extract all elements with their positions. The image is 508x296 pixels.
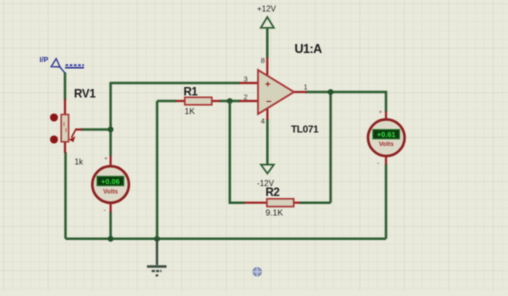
label R2 value 9.1K bbox=[266, 208, 284, 218]
wire: left voltmeter bottom to ground rail bbox=[109, 211, 112, 239]
terminal I/P input marker bbox=[40, 55, 85, 73]
pin: R1 left lead (red) bbox=[176, 100, 185, 102]
voltmeter VM1 (left) bbox=[92, 156, 129, 215]
pin: RV1 top lead (red) bbox=[64, 99, 66, 115]
op-amp U1 triangle bbox=[258, 70, 294, 114]
wire: right voltmeter bottom down and left along ground rail bbox=[385, 164, 388, 239]
svg-text:Volts: Volts bbox=[379, 141, 394, 148]
voltmeter VM2 (right) bbox=[368, 109, 405, 168]
pin: R2 left lead (red) bbox=[245, 202, 268, 204]
origin marker bbox=[252, 267, 262, 277]
pin number 3 bbox=[244, 75, 248, 84]
svg-text:U1:A: U1:A bbox=[295, 42, 323, 56]
pin: right voltmeter - lead (red) bbox=[385, 156, 387, 165]
svg-text:4: 4 bbox=[261, 117, 265, 126]
wire: U1 output rail to right voltmeter bbox=[306, 92, 387, 112]
node: junction of wiper wire and riser bbox=[108, 126, 114, 132]
node: junction of output rail and feedback riser bbox=[328, 89, 334, 95]
label R1 bbox=[184, 87, 199, 99]
potentiometer RV1 body bbox=[61, 115, 68, 142]
svg-text:+0.61: +0.61 bbox=[377, 130, 396, 139]
svg-text:3: 3 bbox=[244, 75, 248, 84]
svg-text:1k: 1k bbox=[75, 158, 84, 167]
pin: R2 right lead (red) bbox=[294, 202, 301, 204]
ground bbox=[147, 239, 167, 276]
wire: R1 left lead to drop at x=157 bbox=[157, 100, 176, 103]
wire: feedback riser from pin-2 node down to R2 left bbox=[230, 101, 245, 203]
wire: R1 right lead to U1 pin 2 bbox=[220, 100, 241, 103]
wire: output riser from R2 up to output rail bbox=[329, 92, 332, 203]
pin: U1 pin 8 lead (red) bbox=[266, 58, 268, 77]
node: junction of R1 output and feedback riser bbox=[227, 98, 233, 104]
svg-text:+12V: +12V bbox=[257, 5, 277, 14]
pin: RV1 bottom lead (red) bbox=[64, 142, 66, 154]
svg-text:+0.06: +0.06 bbox=[101, 177, 120, 186]
wire: I/P terminal down to RV1 top bbox=[64, 73, 67, 101]
power -12V arrow symbol bbox=[257, 165, 275, 188]
wire: RV1 wiper to riser junction bbox=[81, 128, 111, 131]
svg-text:1K: 1K bbox=[185, 106, 196, 116]
wire: vertical riser at x=110.6 from top rail down to left voltmeter bbox=[109, 82, 112, 157]
svg-text:I/P: I/P bbox=[40, 55, 49, 64]
pin number 8 bbox=[261, 56, 265, 65]
pin number 1 bbox=[304, 83, 308, 92]
wire: +12V arrow stem to U1 pin 8 bbox=[266, 28, 269, 59]
RV1 actuator button dot upper bbox=[50, 114, 58, 122]
pin: left voltmeter - lead (red) bbox=[109, 203, 111, 213]
label TL071 bbox=[291, 125, 319, 136]
label RV1 bbox=[74, 89, 96, 101]
pin: left voltmeter + lead (red) bbox=[109, 156, 111, 167]
label R2 bbox=[266, 187, 280, 199]
wire: vertical drop from R1 left to ground rail bbox=[156, 101, 159, 239]
svg-text:+: + bbox=[379, 109, 383, 116]
wire: U1 pin 4 to -12V arrow bbox=[266, 119, 269, 165]
label U1:A bbox=[295, 42, 323, 56]
pin: U1 pin 3 lead (red) bbox=[240, 82, 259, 84]
wire: RV1 bottom terminal down-left corner to ground rail bbox=[64, 152, 67, 239]
svg-text:2: 2 bbox=[244, 93, 248, 102]
pin: U1 output pin 1 lead (red) bbox=[294, 91, 307, 93]
svg-text:9.1K: 9.1K bbox=[266, 208, 284, 218]
svg-text:RV1: RV1 bbox=[74, 89, 96, 101]
resistor R2 body bbox=[267, 199, 294, 207]
pin number 4 bbox=[261, 117, 265, 126]
pin: RV1 wiper lead with arrowhead bbox=[69, 130, 82, 143]
power +12V arrow symbol bbox=[257, 5, 277, 28]
label R1 value 1K bbox=[185, 106, 196, 116]
wire: bottom ground rail bbox=[66, 238, 387, 241]
svg-text:8: 8 bbox=[261, 56, 265, 65]
svg-text:Volts: Volts bbox=[103, 188, 118, 195]
label RV1 value 1k bbox=[75, 158, 84, 167]
pin number 2 bbox=[244, 93, 248, 102]
svg-text:TL071: TL071 bbox=[291, 125, 319, 136]
pin: right voltmeter + lead (red) bbox=[385, 112, 387, 121]
node: junction of left voltmeter drop and ground rail bbox=[108, 236, 114, 242]
wire: R2 right lead to output riser bbox=[300, 201, 331, 204]
pin: U1 pin 2 lead (red) bbox=[240, 100, 259, 102]
pin: U1 pin 4 lead (red) bbox=[266, 108, 268, 120]
wire: top rail from RV1 riser to U1 pin 3 bbox=[111, 82, 240, 85]
svg-text:R2: R2 bbox=[266, 187, 280, 199]
svg-text:−: − bbox=[266, 97, 272, 108]
svg-text:+: + bbox=[265, 79, 271, 90]
svg-text:R1: R1 bbox=[184, 87, 199, 99]
resistor R1 body bbox=[185, 97, 212, 105]
node: junction of R1 drop, ground symbol and ground rail bbox=[154, 236, 160, 242]
RV1 actuator button dot lower bbox=[50, 136, 58, 144]
svg-text:1: 1 bbox=[304, 83, 308, 92]
svg-text:+: + bbox=[104, 156, 108, 163]
pin: R1 right lead (red) bbox=[212, 100, 221, 102]
